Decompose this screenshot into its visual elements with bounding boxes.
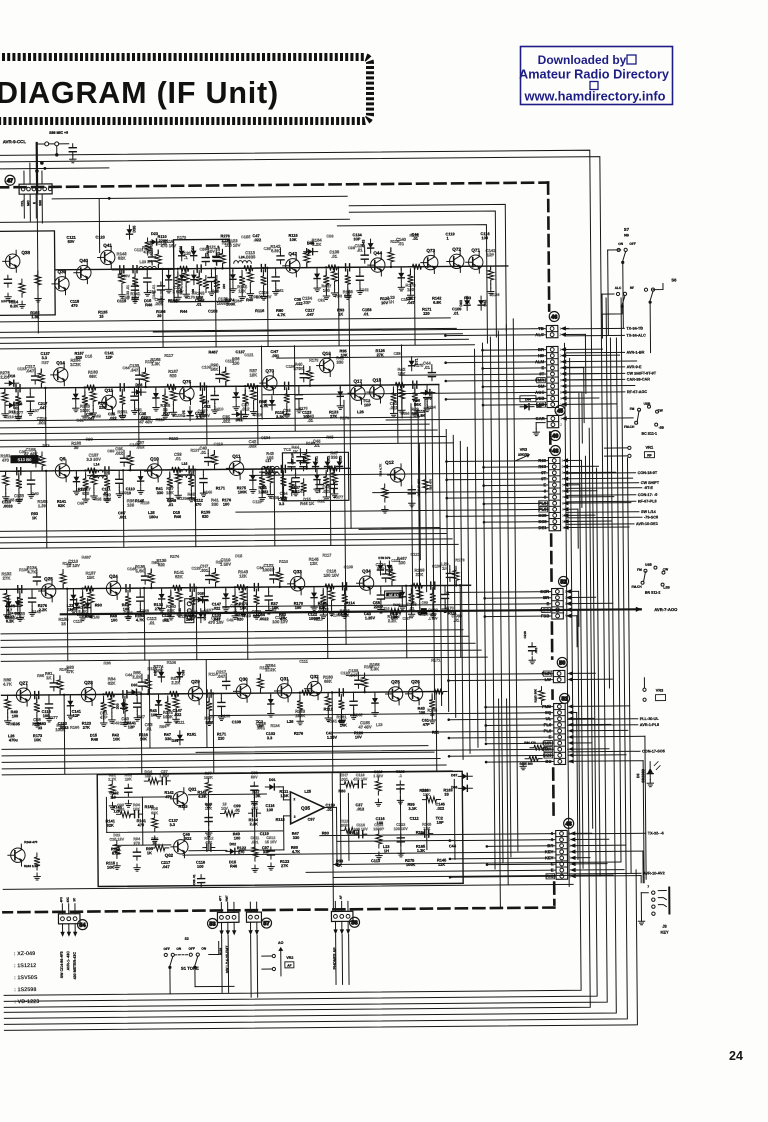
- svg-text:D32: D32: [153, 670, 157, 676]
- wire return C: [1, 610, 581, 995]
- wire corners top-mid: [337, 204, 506, 344]
- svg-text:CON-18-9T: CON-18-9T: [638, 471, 658, 475]
- row E (Q27-Q32 AF) passives: [3, 657, 448, 774]
- svg-text:D78 D79: D78 D79: [378, 556, 390, 560]
- svg-text:D71: D71: [415, 358, 419, 365]
- svg-text:C219: C219: [523, 631, 527, 639]
- svg-text:330: 330: [211, 502, 219, 507]
- capacitor C219: [523, 631, 538, 664]
- svg-text:100: 100: [151, 712, 158, 717]
- svg-text:53: 53: [209, 922, 215, 928]
- svg-text:.01: .01: [149, 620, 156, 625]
- R139/CH3 detail: [387, 601, 439, 621]
- svg-text:100: 100: [111, 618, 118, 623]
- IF transformer L14: [87, 462, 107, 478]
- svg-text:L23: L23: [376, 722, 384, 727]
- svg-text:.01: .01: [409, 606, 416, 611]
- svg-text:R113: R113: [349, 830, 359, 835]
- transistor Q25: [38, 576, 55, 602]
- svg-text:CCL: CCL: [20, 200, 24, 207]
- svg-text:C40: C40: [112, 720, 119, 725]
- svg-text:R244 470: R244 470: [24, 840, 37, 844]
- svg-text:D17: D17: [9, 410, 16, 414]
- svg-text:.047: .047: [130, 367, 139, 372]
- svg-text:R44: R44: [180, 309, 188, 314]
- svg-text:Amateur Radio Directory: Amateur Radio Directory: [519, 68, 669, 82]
- svg-text:L14: L14: [94, 462, 100, 466]
- svg-text:R120: R120: [173, 413, 182, 418]
- svg-text:3.3: 3.3: [170, 822, 176, 827]
- svg-text:R85: R85: [37, 673, 45, 678]
- transistor Q02: [165, 836, 189, 858]
- svg-text:R46: R46: [174, 514, 182, 519]
- svg-text:-79-SC8: -79-SC8: [644, 515, 658, 519]
- svg-text:4F3: 4F3: [59, 897, 63, 903]
- svg-text:R117: R117: [164, 353, 173, 358]
- svg-text:4.7K: 4.7K: [16, 615, 25, 620]
- svg-text:.01: .01: [398, 241, 405, 246]
- svg-text:Q42: Q42: [288, 251, 297, 256]
- svg-text:TX-34-ALC: TX-34-ALC: [626, 334, 646, 338]
- svg-text:L25: L25: [304, 789, 312, 794]
- svg-text:OFF: OFF: [189, 947, 195, 951]
- svg-text:470: 470: [71, 303, 78, 308]
- svg-text:3.3: 3.3: [196, 415, 202, 420]
- svg-text:9: 9: [560, 397, 562, 401]
- svg-text:R139: R139: [393, 603, 401, 607]
- svg-text:4FT: 4FT: [218, 896, 222, 902]
- svg-text:L24: L24: [239, 255, 245, 259]
- svg-text:.022: .022: [184, 836, 192, 841]
- svg-text:470 16V: 470 16V: [353, 777, 368, 781]
- svg-text:Q15: Q15: [104, 388, 113, 393]
- svg-text:Q27: Q27: [19, 681, 28, 686]
- potentiometer VR3 (lower right): [643, 678, 666, 702]
- svg-text:1C2K: 1C2K: [265, 667, 276, 672]
- transistor Q38: [3, 250, 31, 272]
- svg-text:R173: R173: [78, 487, 88, 492]
- svg-text:6: 6: [560, 378, 562, 382]
- diode D16: [5, 374, 19, 386]
- svg-text:.01: .01: [424, 365, 431, 370]
- svg-text:.022: .022: [436, 806, 444, 811]
- svg-text:50V: 50V: [251, 775, 258, 779]
- transistor Q17: [348, 379, 365, 405]
- svg-text:Q70: Q70: [265, 368, 274, 373]
- svg-text:56K: 56K: [414, 402, 421, 407]
- svg-text:1.3K: 1.3K: [280, 793, 288, 798]
- svg-text:.047: .047: [87, 416, 95, 421]
- svg-text:470: 470: [138, 822, 145, 827]
- crystal filter box (C49/TC1/D11-D13): [282, 452, 348, 501]
- svg-text:.001: .001: [119, 514, 127, 519]
- svg-text:10K: 10K: [140, 736, 147, 741]
- svg-text:39: 39: [74, 445, 79, 450]
- wire drops below bottom plugs: [222, 934, 350, 997]
- svg-text:18K: 18K: [205, 720, 213, 725]
- svg-text:Q31: Q31: [280, 676, 289, 681]
- net labels right column: [564, 326, 666, 876]
- row B (Q14-Q18 noise amp) passives: [0, 351, 437, 447]
- svg-text:.022: .022: [261, 489, 269, 494]
- svg-text:3.3: 3.3: [267, 735, 273, 740]
- svg-text:10K: 10K: [249, 372, 257, 377]
- svg-text:10K: 10K: [123, 606, 130, 611]
- downloaded-by box: [519, 47, 673, 105]
- wire bus vertical fan (center-right): [410, 319, 518, 870]
- connector plug 58 (bottom): [331, 901, 353, 934]
- svg-text:10K: 10K: [391, 615, 398, 620]
- svg-text:.022: .022: [115, 451, 124, 456]
- svg-text:49: 49: [552, 434, 558, 440]
- svg-text:100: 100: [482, 235, 489, 240]
- svg-text:R111: R111: [448, 610, 458, 615]
- svg-text:1.3K: 1.3K: [151, 361, 160, 366]
- svg-text:S2: S2: [185, 937, 189, 941]
- svg-text:C121: C121: [410, 552, 420, 557]
- svg-text:Q11: Q11: [232, 454, 241, 459]
- svg-text:Q30: Q30: [239, 677, 248, 682]
- transistor Q12: [385, 460, 405, 486]
- svg-text:R80: R80: [322, 830, 329, 835]
- svg-text:10: 10: [127, 490, 131, 495]
- svg-text:C134: C134: [261, 435, 271, 440]
- wire bus band3 (y~528-545): [0, 527, 458, 548]
- svg-text:68K: 68K: [324, 679, 332, 684]
- svg-text:1 50V: 1 50V: [373, 774, 383, 778]
- svg-text:.022: .022: [109, 416, 117, 421]
- svg-text:4.7K: 4.7K: [27, 569, 36, 574]
- badge S13: [10, 455, 38, 463]
- diode D24: [6, 597, 12, 611]
- svg-text:45: 45: [557, 409, 563, 415]
- labels audio box: [105, 787, 457, 869]
- connector plug 57 (bottom): [246, 902, 261, 935]
- transistor Q10: [144, 456, 161, 482]
- wire return D: [0, 456, 590, 1012]
- row C (Q9-Q11 IF strip) main wire: [0, 468, 350, 471]
- transistor Q39: [52, 269, 69, 295]
- potentiometer VR1 (RF): [604, 445, 654, 458]
- wire bus (top aux): [0, 166, 349, 223]
- switch S7 (NB ON/OFF): [607, 227, 636, 335]
- diode D32: [153, 668, 164, 682]
- svg-text:43C: 43C: [66, 896, 70, 902]
- svg-text:R42: R42: [276, 288, 284, 293]
- svg-text:CON-17- -9: CON-17- -9: [638, 493, 658, 497]
- svg-text:CH3: CH3: [422, 601, 429, 605]
- plug number 51: [560, 693, 570, 703]
- svg-text:10K: 10K: [240, 605, 247, 610]
- svg-text:ON: ON: [201, 947, 207, 951]
- svg-text:KEY: KEY: [660, 930, 669, 935]
- svg-text:7: 7: [647, 885, 649, 889]
- row B (Q14-Q18 noise amp) main wire: [0, 385, 439, 389]
- connector plug 54 (bottom): [58, 904, 80, 937]
- diode D70: [421, 390, 435, 401]
- svg-text:R274: R274: [170, 554, 180, 559]
- wire return E: [0, 338, 616, 1018]
- diode D68: [132, 383, 146, 395]
- svg-text:24: 24: [729, 1049, 743, 1063]
- svg-text:FM.CH: FM.CH: [632, 585, 643, 589]
- transistor Q16: [317, 351, 334, 377]
- svg-text:D64: D64: [525, 398, 531, 402]
- svg-text:R46 1K: R46 1K: [300, 501, 314, 506]
- svg-text:1.3K: 1.3K: [417, 848, 425, 853]
- svg-text:10K: 10K: [125, 777, 132, 781]
- transistor Q28: [78, 680, 95, 706]
- svg-text:27K: 27K: [330, 414, 337, 419]
- svg-text:C116: C116: [253, 412, 263, 417]
- potentiometer VR3 label (30K B): [515, 448, 529, 461]
- row C (Q9-Q11 IF strip) passives: [0, 434, 343, 548]
- svg-text:R173: R173: [455, 557, 465, 562]
- svg-text:ON: ON: [618, 242, 624, 246]
- IF transformer L16: [175, 462, 195, 478]
- svg-text:D5: D5: [636, 773, 640, 778]
- connector plug 54 (bottom) number: [77, 920, 87, 930]
- svg-text:47P: 47P: [100, 715, 108, 720]
- transistor Q25: [385, 679, 402, 705]
- svg-text:47K: 47K: [66, 669, 74, 674]
- svg-text:.022: .022: [222, 419, 231, 424]
- svg-text:: 1S2598: : 1S2598: [14, 987, 36, 993]
- svg-text:1: 1: [560, 348, 562, 352]
- Q38 passives: [1, 271, 41, 308]
- svg-text:1.3K: 1.3K: [370, 666, 379, 671]
- transistor Q27: [13, 681, 30, 707]
- diode D40: [304, 242, 318, 255]
- svg-text:1K: 1K: [46, 675, 51, 680]
- svg-text:D62: D62: [483, 300, 487, 307]
- svg-text:R90: R90: [95, 602, 102, 607]
- svg-text:2.2K: 2.2K: [133, 674, 142, 679]
- svg-text:AVR-1- 43C: AVR-1- 43C: [66, 951, 70, 971]
- transistor Q70: [260, 368, 277, 394]
- connector plug 52 (SCR..FSB): [540, 588, 567, 619]
- transistor Q71: [466, 248, 483, 274]
- svg-text:.01: .01: [413, 236, 419, 241]
- svg-text:S88: S88: [38, 200, 42, 206]
- svg-text:C137: C137: [30, 408, 39, 413]
- svg-text:33P: 33P: [303, 300, 311, 305]
- svg-text:FM.CH: FM.CH: [624, 425, 635, 429]
- svg-text:100 10V: 100 10V: [323, 573, 339, 578]
- svg-text:1.25V: 1.25V: [365, 615, 376, 620]
- labels row E margin: [8, 706, 440, 743]
- svg-text:2.2K: 2.2K: [222, 238, 230, 243]
- svg-text:D28: D28: [198, 592, 204, 596]
- svg-text:1: 1: [560, 417, 562, 421]
- svg-text:-9T-E: -9T-E: [644, 486, 654, 490]
- resistor R84/R125: [519, 741, 547, 770]
- svg-text:D01: D01: [269, 778, 276, 782]
- svg-text:6.8K: 6.8K: [271, 248, 280, 253]
- svg-text:220: 220: [218, 736, 225, 741]
- svg-text:22K: 22K: [99, 405, 106, 410]
- svg-text:C140 .01: C140 .01: [152, 285, 156, 300]
- plug 53 wire labels (rotated): [218, 895, 229, 973]
- svg-text:.022: .022: [322, 489, 331, 494]
- diode D25: [8, 597, 21, 615]
- svg-text:S1 TONE: S1 TONE: [181, 966, 199, 971]
- svg-text:R49: R49: [94, 413, 102, 418]
- svg-text:10K: 10K: [398, 371, 406, 376]
- connector plug 48 (-6..AV2): [545, 830, 572, 879]
- svg-text:.0033: .0033: [245, 254, 256, 259]
- svg-text:L21: L21: [178, 608, 182, 614]
- svg-text:2.2K: 2.2K: [39, 607, 47, 612]
- svg-text:4.7K: 4.7K: [277, 312, 285, 317]
- svg-text:D31: D31: [131, 683, 138, 687]
- svg-text:7: 7: [560, 384, 562, 388]
- svg-text:52: 52: [560, 580, 566, 586]
- svg-text:100: 100: [323, 288, 331, 293]
- svg-text:2.7K: 2.7K: [108, 778, 116, 782]
- svg-text:RF-67-AGC: RF-67-AGC: [627, 390, 648, 394]
- audio block box: [97, 771, 463, 886]
- svg-text:R467: R467: [209, 349, 218, 354]
- svg-text:12P: 12P: [128, 724, 135, 729]
- op-amp Q35: [283, 791, 336, 823]
- svg-text:RF-67-PL8: RF-67-PL8: [638, 499, 657, 503]
- svg-text:470: 470: [165, 794, 172, 799]
- svg-text:33P: 33P: [263, 849, 270, 854]
- svg-text:R84: R84: [402, 411, 410, 416]
- svg-text:R112: R112: [324, 706, 334, 711]
- svg-text:D02: D02: [230, 842, 237, 846]
- svg-text:100K: 100K: [406, 862, 416, 867]
- svg-text:470u: 470u: [9, 737, 19, 742]
- svg-text:AVR-10-AV2: AVR-10-AV2: [643, 871, 665, 875]
- svg-text:Q39: Q39: [57, 269, 66, 274]
- svg-text:6: 6: [562, 489, 564, 493]
- svg-text:1H: 1H: [442, 566, 447, 571]
- svg-text:R46: R46: [230, 863, 238, 868]
- connector plug 43 (R63..DE1): [538, 457, 566, 530]
- svg-text:R145: R145: [135, 498, 145, 503]
- wire verticals right of connectors: [564, 298, 631, 887]
- svg-text:18K: 18K: [14, 414, 22, 419]
- svg-text:L23 1H: L23 1H: [139, 260, 152, 264]
- svg-text:1000P: 1000P: [309, 616, 321, 621]
- svg-text:10K: 10K: [107, 865, 114, 870]
- svg-text:D39: D39: [191, 289, 195, 295]
- svg-text:100: 100: [186, 617, 193, 622]
- svg-text:27K: 27K: [281, 863, 288, 868]
- mic line block (S88 MIC +9): [37, 131, 77, 163]
- svg-text:820: 820: [76, 355, 83, 360]
- svg-text:FM: FM: [637, 568, 642, 572]
- svg-text:C111: C111: [299, 659, 309, 664]
- svg-text:TX-34-TB: TX-34-TB: [626, 327, 643, 331]
- connector plug 44 (BR..LSB): [535, 346, 564, 407]
- diode D31: [127, 683, 141, 695]
- svg-text:4.7K: 4.7K: [292, 849, 300, 854]
- svg-text:1K: 1K: [337, 863, 342, 868]
- svg-text:R171: R171: [216, 485, 226, 490]
- diode D17: [5, 402, 19, 414]
- svg-text:12K: 12K: [238, 288, 246, 293]
- svg-text:Q33: Q33: [293, 569, 302, 574]
- svg-text:D68: D68: [135, 383, 142, 387]
- svg-text:220: 220: [423, 311, 430, 316]
- svg-text:820: 820: [158, 562, 166, 567]
- svg-text:VR2: VR2: [286, 956, 293, 960]
- plug 47 pin labels: [20, 199, 42, 206]
- svg-text:3: 3: [294, 815, 296, 819]
- svg-text:C93: C93: [326, 233, 334, 238]
- diode D27: [77, 599, 91, 617]
- svg-text:OFF: OFF: [164, 947, 170, 951]
- svg-text:15K: 15K: [87, 575, 95, 580]
- svg-text:100: 100: [43, 713, 50, 718]
- svg-text:Q76: Q76: [182, 379, 191, 384]
- svg-text:D61: D61: [236, 418, 243, 422]
- svg-text:220K: 220K: [159, 238, 169, 243]
- plug number 48b: [564, 818, 574, 828]
- svg-text:: 1SV50S: : 1SV50S: [14, 975, 38, 981]
- wire supply loop A (top rail to bottom rail): [0, 150, 597, 1001]
- svg-text:.012: .012: [241, 406, 250, 411]
- diodes D64 D65 (boxed): [520, 396, 542, 410]
- svg-text:AVR-9-CCL: AVR-9-CCL: [3, 139, 27, 144]
- svg-text:10P: 10P: [257, 723, 264, 728]
- svg-text:10K: 10K: [34, 737, 41, 742]
- svg-text:D29: D29: [203, 614, 207, 620]
- transistor Q76: [177, 379, 194, 405]
- svg-text:ON: ON: [176, 947, 182, 951]
- svg-text:R36: R36: [104, 660, 112, 665]
- plug number 48: [550, 445, 560, 455]
- svg-text:50: 50: [559, 661, 565, 667]
- svg-text:C119: C119: [260, 831, 270, 836]
- wire bus band6 (bottom): [3, 862, 621, 889]
- svg-text:CW SHIFT: CW SHIFT: [641, 481, 660, 485]
- svg-text:R110: R110: [279, 559, 288, 564]
- svg-text:8: 8: [562, 501, 564, 505]
- svg-text:Q25: Q25: [44, 576, 53, 581]
- svg-text:54: 54: [79, 923, 86, 929]
- svg-text:.001: .001: [341, 778, 348, 782]
- svg-text:1: 1: [559, 327, 561, 331]
- svg-text:27K: 27K: [155, 606, 162, 611]
- transistor Q40: [74, 258, 91, 284]
- svg-text:R84 470: R84 470: [524, 741, 536, 745]
- svg-text:Q24: Q24: [109, 574, 118, 579]
- svg-text:D40: D40: [307, 242, 314, 246]
- svg-text:C140: C140: [418, 611, 427, 616]
- svg-text:12K: 12K: [239, 573, 247, 578]
- coil L24: [234, 255, 252, 263]
- svg-text:62K: 62K: [108, 681, 116, 686]
- svg-text:100: 100: [223, 502, 230, 507]
- svg-text:.047: .047: [217, 674, 226, 679]
- svg-text:D43: D43: [362, 240, 366, 247]
- svg-text:R115: R115: [276, 817, 286, 822]
- svg-text:56K: 56K: [211, 367, 219, 372]
- svg-text:22K: 22K: [344, 294, 352, 299]
- diode D62: [478, 296, 487, 310]
- svg-text:8.2K: 8.2K: [10, 303, 18, 308]
- svg-text:330: 330: [165, 736, 172, 741]
- transistor Q9: [52, 456, 69, 482]
- svg-text:3: 3: [562, 471, 564, 475]
- diode D29: [198, 609, 207, 623]
- svg-text:R276: R276: [294, 731, 304, 736]
- svg-text:3.3: 3.3: [292, 489, 298, 494]
